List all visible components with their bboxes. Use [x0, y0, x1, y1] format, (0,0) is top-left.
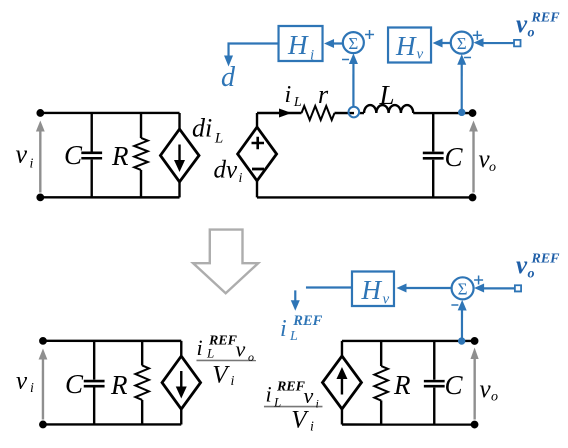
svg-text:REF: REF	[531, 11, 561, 26]
svg-text:R: R	[111, 141, 129, 171]
svg-text:L: L	[273, 394, 281, 409]
svg-text:o: o	[527, 267, 534, 282]
svg-text:i: i	[30, 156, 34, 171]
svg-text:i: i	[315, 397, 318, 411]
svg-text:o: o	[491, 390, 498, 405]
svg-text:REF: REF	[276, 379, 306, 394]
svg-text:R: R	[393, 370, 411, 400]
svg-text:H: H	[395, 31, 417, 61]
svg-text:i: i	[196, 335, 202, 360]
svg-text:v: v	[479, 376, 491, 403]
svg-text:o: o	[489, 160, 496, 175]
svg-text:C: C	[65, 369, 84, 399]
svg-text:i: i	[265, 381, 271, 406]
svg-text:L: L	[289, 329, 298, 344]
svg-text:i: i	[310, 48, 314, 64]
svg-text:REF: REF	[292, 313, 322, 329]
svg-text:H: H	[360, 275, 382, 305]
svg-text:Σ: Σ	[457, 34, 467, 53]
svg-text:v: v	[516, 11, 528, 38]
svg-text:L: L	[293, 95, 302, 110]
svg-text:o: o	[528, 26, 535, 41]
svg-text:o: o	[248, 350, 254, 364]
svg-text:dv: dv	[214, 156, 239, 183]
svg-text:d: d	[221, 62, 236, 93]
svg-text:i: i	[30, 381, 34, 396]
svg-text:H: H	[287, 30, 309, 60]
svg-text:i: i	[280, 316, 287, 342]
svg-text:R: R	[110, 370, 128, 400]
svg-text:r: r	[318, 80, 329, 109]
svg-text:i: i	[310, 419, 314, 434]
svg-text:Σ: Σ	[348, 34, 358, 53]
svg-text:REF: REF	[208, 333, 238, 348]
svg-text:di: di	[192, 113, 212, 142]
svg-text:L: L	[379, 80, 395, 110]
svg-text:v: v	[417, 47, 424, 63]
svg-text:v: v	[16, 139, 28, 168]
svg-text:v: v	[16, 367, 28, 394]
svg-text:REF: REF	[530, 252, 560, 267]
svg-text:Σ: Σ	[458, 280, 468, 299]
svg-text:v: v	[516, 252, 528, 279]
svg-text:i: i	[230, 374, 234, 389]
svg-text:C: C	[445, 142, 464, 172]
svg-text:i: i	[285, 82, 292, 108]
svg-text:C: C	[444, 370, 463, 400]
svg-text:v: v	[382, 292, 389, 308]
svg-text:v: v	[235, 336, 245, 361]
svg-text:L: L	[214, 130, 223, 146]
svg-text:v: v	[303, 383, 313, 408]
svg-text:i: i	[239, 171, 243, 186]
svg-text:C: C	[64, 140, 83, 170]
